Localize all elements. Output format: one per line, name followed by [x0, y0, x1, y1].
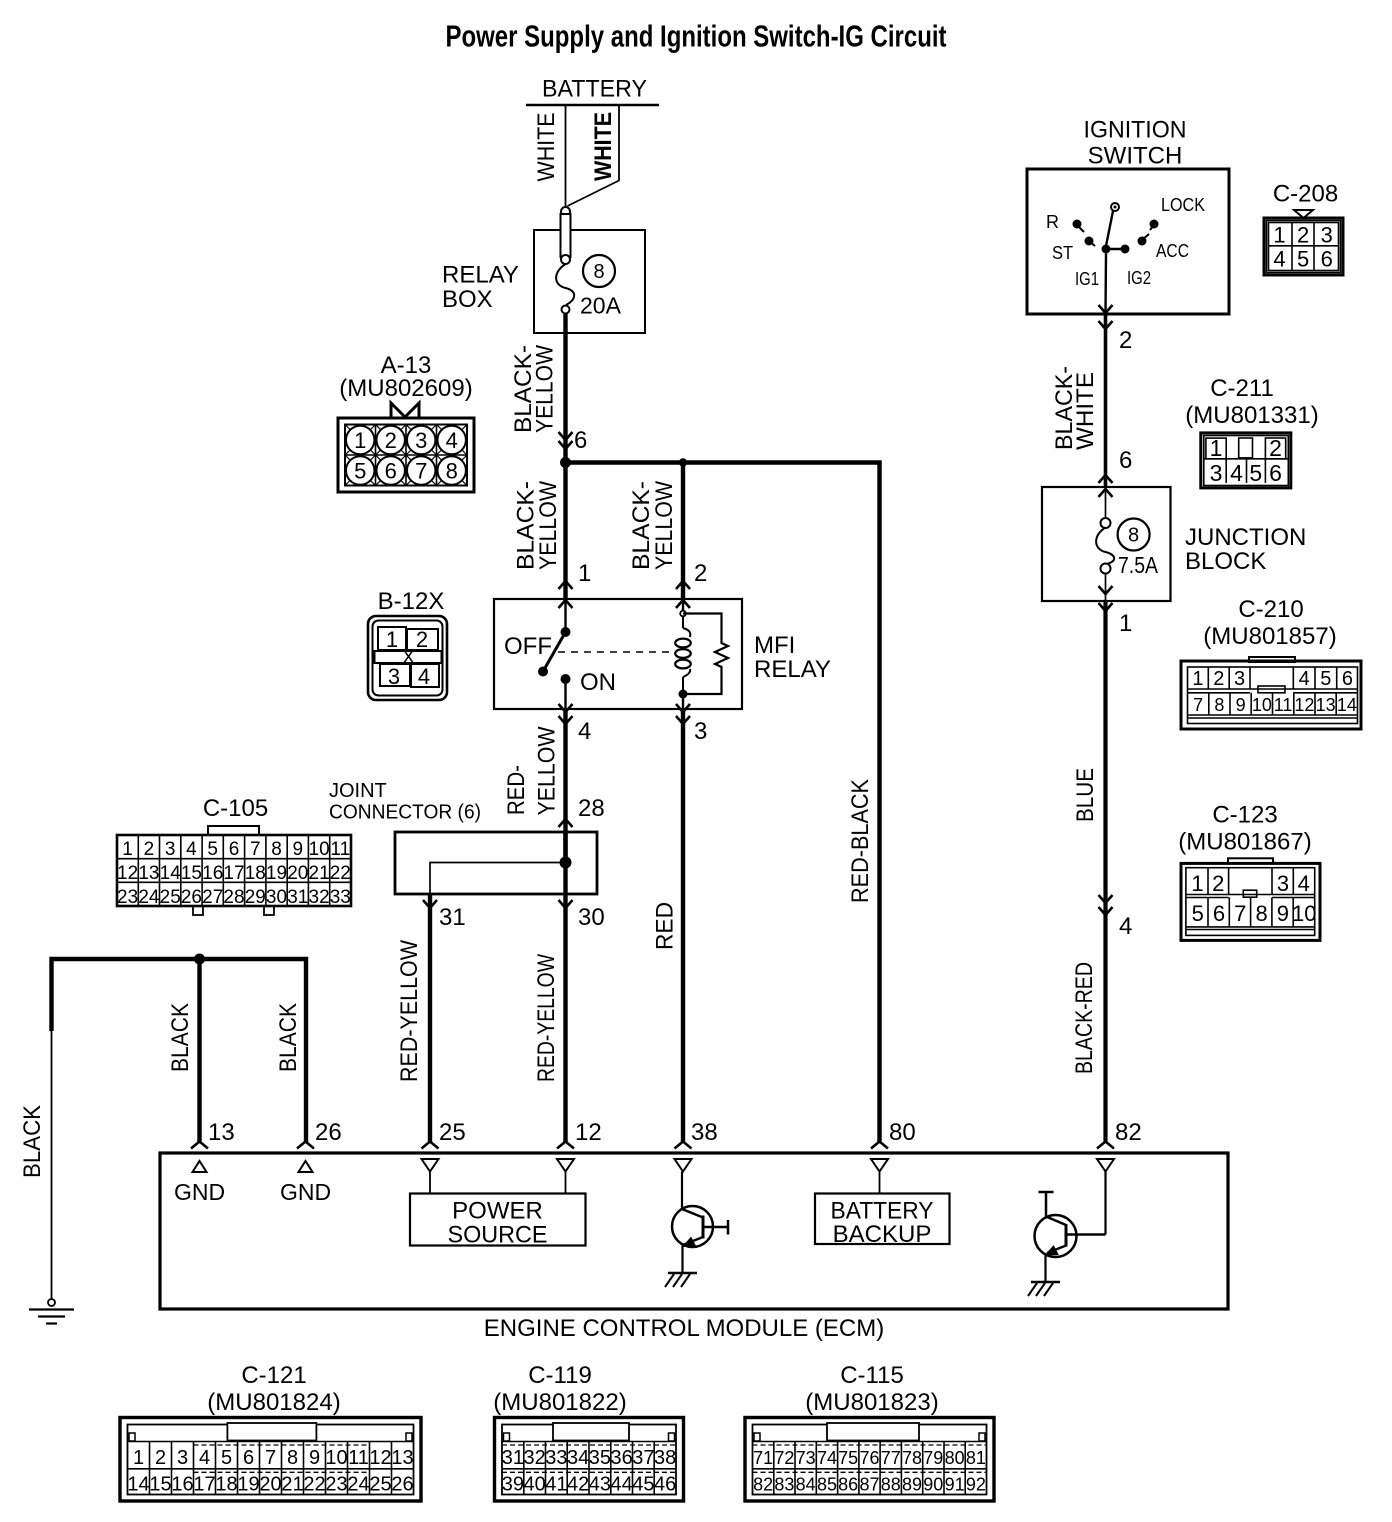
ECM power source block	[429, 1172, 431, 1194]
fuse number circle 8	[583, 255, 615, 287]
svg-text:RELAY: RELAY	[754, 656, 831, 683]
joint connector internal link	[430, 863, 566, 895]
ignition switch contact ACC inner	[1138, 237, 1147, 246]
svg-text:26: 26	[391, 1474, 413, 1496]
wire ignition switch output inside box	[1104, 254, 1107, 315]
svg-text:(MU801857): (MU801857)	[1203, 623, 1336, 650]
svg-text:4: 4	[578, 718, 591, 745]
wire RED (MFI pin 3 to ECM 38)	[681, 709, 685, 1143]
svg-text:10: 10	[325, 1447, 347, 1469]
svg-text:17: 17	[223, 863, 244, 884]
node coil bottom junction	[679, 690, 688, 699]
svg-text:(MU801867): (MU801867)	[1178, 828, 1311, 855]
svg-text:13: 13	[208, 1119, 235, 1146]
svg-text:25: 25	[160, 887, 181, 908]
svg-text:20A: 20A	[580, 293, 622, 319]
svg-text:18: 18	[215, 1474, 237, 1496]
svg-text:40: 40	[523, 1474, 545, 1496]
wire BLUE (junction block to C-123)	[1103, 601, 1107, 1143]
svg-text:IG1: IG1	[1075, 269, 1099, 289]
svg-text:19: 19	[266, 863, 287, 884]
svg-text:1: 1	[1210, 435, 1223, 461]
svg-text:4: 4	[446, 428, 458, 453]
MFI relay coil shunt resistor	[683, 614, 728, 695]
svg-text:21: 21	[309, 863, 330, 884]
svg-text:11: 11	[348, 1447, 369, 1469]
svg-text:RED-BLACK: RED-BLACK	[847, 779, 874, 903]
svg-text:1: 1	[1192, 668, 1203, 690]
svg-text:SWITCH: SWITCH	[1088, 143, 1183, 170]
svg-text:28: 28	[578, 795, 605, 822]
arrow chevrons into node 6	[559, 432, 573, 440]
svg-text:38: 38	[691, 1119, 718, 1146]
svg-text:31: 31	[502, 1447, 524, 1469]
svg-text:3: 3	[177, 1447, 188, 1469]
ignition switch contact link IG1-IG2	[1106, 248, 1125, 250]
ignition switch pivot	[1111, 203, 1119, 211]
svg-text:24: 24	[347, 1474, 369, 1496]
svg-text:71: 71	[753, 1448, 773, 1468]
svg-text:C-208: C-208	[1273, 181, 1338, 208]
svg-text:RED: RED	[652, 902, 679, 950]
svg-text:7.5A: 7.5A	[1118, 552, 1159, 578]
svg-text:92: 92	[966, 1475, 986, 1495]
ignition switch contact R	[1073, 220, 1082, 229]
svg-text:82: 82	[1115, 1119, 1142, 1146]
svg-text:SOURCE: SOURCE	[448, 1221, 548, 1248]
svg-text:6: 6	[1213, 901, 1225, 926]
svg-text:26: 26	[181, 887, 202, 908]
svg-text:2: 2	[1269, 435, 1282, 461]
wire RED-YELLOW (joint 31 to ECM 25)	[428, 894, 432, 1143]
svg-text:8: 8	[1128, 525, 1139, 547]
svg-text:11: 11	[1274, 695, 1293, 715]
svg-text:22: 22	[330, 863, 351, 884]
wire RED-YELLOW through joint connector	[563, 832, 567, 894]
svg-text:GND: GND	[280, 1179, 331, 1205]
wire BLACK-YELLOW (node to MFI pin 2)	[681, 463, 685, 600]
svg-text:87: 87	[859, 1475, 879, 1495]
arrow chevron into ECM pin 13	[191, 1142, 208, 1149]
svg-text:1: 1	[354, 428, 366, 453]
svg-text:4: 4	[1119, 913, 1132, 940]
svg-text:6: 6	[574, 427, 587, 454]
connector C-105 bottom tabs	[193, 906, 203, 915]
svg-text:6: 6	[385, 459, 397, 484]
connector C-123 body	[1228, 858, 1273, 863]
svg-text:20: 20	[259, 1474, 281, 1496]
fuse number circle 8 (junction block)	[1118, 519, 1150, 551]
svg-text:C-211: C-211	[1210, 375, 1274, 402]
svg-text:6: 6	[1119, 447, 1132, 474]
wire BLACK ground bus	[52, 959, 307, 1143]
svg-text:WHITE: WHITE	[533, 113, 560, 182]
MFI relay switch contact ON	[561, 674, 571, 684]
chassis ground (Q2)	[1031, 1281, 1060, 1284]
arrow chevrons into MFI pin 1	[559, 581, 573, 589]
svg-text:C-121: C-121	[241, 1362, 306, 1389]
svg-text:(MU801822): (MU801822)	[493, 1389, 626, 1416]
svg-text:33: 33	[330, 887, 351, 908]
junction block box	[1042, 487, 1171, 601]
svg-text:9: 9	[309, 1447, 320, 1469]
svg-text:80: 80	[945, 1448, 965, 1468]
svg-text:BLACK-RED: BLACK-RED	[1071, 962, 1098, 1074]
svg-text:7: 7	[415, 459, 427, 484]
svg-text:84: 84	[796, 1475, 816, 1495]
svg-text:BATTERY: BATTERY	[542, 76, 647, 103]
ECM pin 82 input triangle	[1097, 1159, 1114, 1172]
svg-text:73: 73	[796, 1448, 816, 1468]
svg-text:YELLOW: YELLOW	[651, 481, 678, 570]
svg-text:1: 1	[1119, 610, 1132, 637]
svg-text:22: 22	[303, 1474, 325, 1496]
svg-text:30: 30	[266, 887, 287, 908]
arrow chevron into joint connector pin 28	[559, 819, 573, 827]
svg-text:12: 12	[575, 1119, 602, 1146]
ignition switch contact ST	[1085, 237, 1094, 246]
svg-text:2: 2	[1297, 223, 1309, 248]
svg-text:2: 2	[416, 627, 428, 652]
arrow chevron into ECM pin 80	[871, 1142, 888, 1149]
ECM pin 80 input triangle	[871, 1159, 888, 1172]
node junction dot at 6	[560, 457, 571, 468]
svg-text:8: 8	[1255, 901, 1267, 926]
svg-text:BLOCK: BLOCK	[1185, 548, 1266, 575]
fuse element F8 20A in relay box	[556, 264, 574, 305]
svg-text:YELLOW: YELLOW	[532, 345, 559, 433]
svg-text:1: 1	[386, 627, 398, 652]
svg-text:4: 4	[1230, 460, 1243, 486]
svg-text:76: 76	[859, 1448, 879, 1468]
svg-text:2: 2	[155, 1447, 166, 1469]
svg-text:(MU801331): (MU801331)	[1185, 402, 1318, 429]
svg-text:5: 5	[1249, 460, 1262, 486]
svg-text:90: 90	[923, 1475, 943, 1495]
fuse element F8 7.5A in junction block	[1105, 487, 1107, 519]
node joint connector junction dot	[560, 857, 572, 869]
svg-text:31: 31	[439, 904, 466, 931]
svg-text:WHITE: WHITE	[590, 112, 617, 181]
ECM GND terminal 26	[299, 1161, 313, 1172]
svg-text:24: 24	[138, 887, 160, 908]
svg-text:8: 8	[287, 1447, 298, 1469]
svg-text:75: 75	[838, 1448, 858, 1468]
svg-text:5: 5	[354, 459, 366, 484]
svg-text:32: 32	[309, 887, 330, 908]
svg-text:43: 43	[589, 1474, 611, 1496]
svg-text:38: 38	[654, 1447, 676, 1469]
svg-text:YELLOW: YELLOW	[534, 726, 561, 815]
svg-text:33: 33	[545, 1447, 567, 1469]
svg-text:C-123: C-123	[1212, 802, 1277, 829]
ignition switch box	[1027, 169, 1229, 314]
svg-text:16: 16	[171, 1474, 193, 1496]
svg-text:5: 5	[1297, 247, 1309, 272]
svg-text:20: 20	[287, 863, 308, 884]
svg-text:10: 10	[1292, 901, 1316, 926]
svg-text:15: 15	[149, 1474, 171, 1496]
arrow chevrons out of junction block pin 1	[1099, 586, 1113, 594]
ground symbol (earth)	[48, 1299, 55, 1306]
svg-text:21: 21	[281, 1474, 303, 1496]
transistor Q2 (pin 82 driver)	[1104, 1172, 1106, 1235]
arrow chevrons out of MFI pin 4	[559, 704, 573, 712]
svg-text:6: 6	[1269, 460, 1282, 486]
svg-text:3: 3	[1321, 223, 1333, 248]
MFI relay actuation dashed link	[558, 651, 672, 653]
svg-text:81: 81	[966, 1448, 986, 1468]
svg-text:36: 36	[610, 1447, 632, 1469]
svg-text:37: 37	[632, 1447, 654, 1469]
wire BLACK-WHITE (ignition to junction block)	[1104, 314, 1108, 487]
arrow chevrons at C-123 pin 4	[1099, 895, 1113, 903]
MFI relay switch lever	[543, 632, 566, 672]
svg-text:RED-YELLOW: RED-YELLOW	[396, 940, 423, 1082]
svg-text:2: 2	[694, 560, 707, 587]
svg-text:1: 1	[133, 1447, 144, 1469]
svg-text:2: 2	[1213, 668, 1224, 690]
svg-text:6: 6	[1321, 247, 1333, 272]
svg-text:8: 8	[446, 459, 458, 484]
svg-text:BLACK: BLACK	[167, 1003, 194, 1072]
svg-text:CONNECTOR (6): CONNECTOR (6)	[329, 802, 481, 824]
wire BLACK-YELLOW (relay box to node 6)	[563, 314, 567, 463]
arrow chevrons into MFI pin 2	[676, 581, 690, 589]
svg-text:R: R	[1046, 212, 1059, 232]
svg-text:3: 3	[415, 428, 427, 453]
svg-text:7: 7	[1193, 695, 1203, 715]
svg-text:BLUE: BLUE	[1072, 768, 1099, 822]
svg-text:5: 5	[207, 839, 218, 860]
ignition switch contact ACC outer (LOCK side)	[1150, 220, 1159, 229]
wire RED-BLACK (bus to ECM 80)	[877, 463, 881, 1144]
svg-text:BACKUP: BACKUP	[833, 1221, 932, 1248]
svg-text:42: 42	[567, 1474, 589, 1496]
svg-text:46: 46	[654, 1474, 676, 1496]
svg-text:OFF: OFF	[504, 633, 552, 660]
svg-text:7: 7	[265, 1447, 276, 1469]
svg-text:(MU802609): (MU802609)	[339, 375, 472, 402]
wire BLACK to chassis ground (thin)	[51, 1031, 53, 1299]
svg-text:(MU801824): (MU801824)	[207, 1389, 340, 1416]
chassis ground (Q1)	[668, 1272, 697, 1275]
svg-text:14: 14	[127, 1474, 149, 1496]
arrow chevron into ECM pin 25	[422, 1142, 439, 1149]
svg-text:IG2: IG2	[1127, 268, 1151, 288]
svg-text:17: 17	[193, 1474, 215, 1496]
svg-text:80: 80	[889, 1119, 916, 1146]
svg-text:12: 12	[369, 1447, 391, 1469]
svg-text:ON: ON	[580, 669, 616, 696]
svg-text:1: 1	[1191, 871, 1203, 896]
svg-text:82: 82	[753, 1475, 773, 1495]
svg-text:15: 15	[181, 863, 202, 884]
svg-text:83: 83	[774, 1475, 794, 1495]
connector C-119 body	[495, 1418, 684, 1502]
svg-text:9: 9	[293, 839, 304, 860]
ECM pin 25 input triangle	[422, 1159, 439, 1172]
svg-text:8: 8	[593, 261, 604, 283]
arrow chevron into ECM pin 82	[1097, 1142, 1114, 1149]
svg-text:4: 4	[186, 839, 197, 860]
relay MFI box	[494, 599, 742, 709]
wire bus BLACK-YELLOW horizontal	[563, 460, 881, 465]
connector C-211 body	[1201, 433, 1291, 488]
wire RED-YELLOW (MFI pin 4 to joint connector pin 28)	[563, 709, 567, 863]
svg-text:23: 23	[117, 887, 138, 908]
wire BLACK-YELLOW (node to MFI pin 1)	[563, 463, 567, 600]
svg-text:6: 6	[1342, 668, 1353, 690]
svg-text:4: 4	[1299, 668, 1310, 690]
connector C-208 index triangle	[1294, 210, 1313, 218]
svg-text:30: 30	[578, 904, 605, 931]
svg-text:3: 3	[1277, 871, 1289, 896]
arrow chevrons out of ignition switch pin 2	[1099, 305, 1113, 313]
svg-text:88: 88	[881, 1475, 901, 1495]
svg-text:11: 11	[330, 839, 350, 860]
svg-text:JUNCTION: JUNCTION	[1185, 524, 1306, 551]
connector C-121 body	[120, 1418, 421, 1502]
ECM box (engine control module)	[160, 1153, 1228, 1309]
svg-text:78: 78	[902, 1448, 922, 1468]
svg-text:25: 25	[439, 1119, 466, 1146]
svg-text:BLACK: BLACK	[19, 1105, 46, 1178]
svg-text:ST: ST	[1052, 243, 1073, 263]
transistor Q1 (pin 38 driver)	[681, 1172, 683, 1210]
svg-text:89: 89	[902, 1475, 922, 1495]
MFI relay switch contact OFF	[564, 599, 566, 632]
ECM pin 12 input triangle	[557, 1159, 574, 1172]
svg-text:7: 7	[250, 839, 261, 860]
svg-text:5: 5	[221, 1447, 232, 1469]
wire MFI pin 4 (ON contact) inside relay	[564, 679, 566, 709]
ECM battery backup block	[879, 1172, 881, 1194]
wire battery lead 2 WHITE	[568, 105, 620, 206]
svg-text:ENGINE CONTROL MODULE (ECM): ENGINE CONTROL MODULE (ECM)	[484, 1315, 884, 1342]
svg-text:RED-YELLOW: RED-YELLOW	[533, 954, 560, 1082]
svg-text:4: 4	[1273, 247, 1285, 272]
connector C-105 body	[117, 835, 351, 906]
svg-text:C-210: C-210	[1238, 596, 1303, 623]
svg-text:34: 34	[567, 1447, 589, 1469]
svg-text:C-119: C-119	[528, 1362, 592, 1389]
svg-text:6: 6	[243, 1447, 254, 1469]
arrow chevrons into junction block pin 6	[1099, 475, 1113, 483]
svg-text:13: 13	[391, 1447, 413, 1469]
fusible link (battery to fuse)	[561, 207, 570, 216]
connector C-115 body	[745, 1418, 994, 1502]
svg-text:8: 8	[271, 839, 282, 860]
wire battery lead 1 WHITE	[565, 105, 567, 207]
svg-text:3: 3	[694, 718, 707, 745]
battery bus bar	[526, 104, 659, 107]
svg-text:3: 3	[165, 839, 176, 860]
svg-text:35: 35	[589, 1447, 611, 1469]
connector C-208 body	[1264, 218, 1343, 275]
svg-text:ACC: ACC	[1156, 241, 1189, 261]
connector C-210 body	[1249, 657, 1295, 662]
svg-text:2: 2	[144, 839, 155, 860]
svg-text:12: 12	[1294, 695, 1314, 715]
svg-text:C-105: C-105	[203, 795, 268, 822]
svg-text:2: 2	[1212, 871, 1224, 896]
ignition switch contact IG2	[1121, 245, 1130, 254]
wire RED-YELLOW (joint 30 to ECM 12)	[563, 894, 567, 1143]
svg-text:1: 1	[122, 839, 133, 860]
arrow chevron into ECM pin 38	[675, 1142, 692, 1149]
svg-text:10: 10	[1252, 695, 1272, 715]
svg-text:4: 4	[1298, 871, 1310, 896]
svg-text:LOCK: LOCK	[1161, 195, 1205, 215]
arrow chevron into ECM pin 12	[557, 1142, 574, 1149]
connector B-12X body	[368, 616, 447, 700]
ECM pin 38 input triangle	[675, 1159, 692, 1172]
svg-text:44: 44	[610, 1474, 632, 1496]
svg-text:26: 26	[315, 1119, 342, 1146]
svg-text:WHITE: WHITE	[1072, 372, 1099, 450]
svg-text:10: 10	[309, 839, 330, 860]
svg-text:3: 3	[1210, 460, 1223, 486]
svg-text:1: 1	[578, 560, 591, 587]
svg-text:9: 9	[1236, 695, 1246, 715]
svg-text:JOINT: JOINT	[329, 780, 387, 802]
svg-text:8: 8	[1214, 695, 1224, 715]
svg-text:5: 5	[1320, 668, 1331, 690]
svg-text:91: 91	[945, 1475, 965, 1495]
ignition switch contact IG1 (center)	[1102, 245, 1111, 254]
connector C-105 top tab	[208, 826, 259, 835]
svg-text:19: 19	[237, 1474, 259, 1496]
svg-text:45: 45	[632, 1474, 654, 1496]
svg-text:6: 6	[229, 839, 240, 860]
svg-text:32: 32	[523, 1447, 545, 1469]
joint connector box	[395, 832, 597, 894]
svg-text:28: 28	[223, 887, 244, 908]
MFI relay coil	[682, 599, 684, 611]
svg-text:14: 14	[160, 863, 182, 884]
svg-text:79: 79	[923, 1448, 943, 1468]
relay box outline	[534, 230, 645, 333]
svg-text:GND: GND	[174, 1179, 225, 1205]
svg-text:YELLOW: YELLOW	[535, 481, 562, 570]
svg-text:29: 29	[245, 887, 266, 908]
svg-text:IGNITION: IGNITION	[1084, 116, 1187, 143]
transistor Q1 emitter to chassis ground	[681, 1245, 683, 1273]
svg-text:16: 16	[202, 863, 223, 884]
svg-text:3: 3	[1234, 668, 1245, 690]
arrow chevron into ECM pin 26	[297, 1142, 314, 1149]
svg-text:39: 39	[502, 1474, 524, 1496]
svg-text:23: 23	[325, 1474, 347, 1496]
svg-text:25: 25	[369, 1474, 391, 1496]
wire MFI pin 3 inside relay	[682, 694, 684, 709]
svg-text:RED-: RED-	[503, 765, 530, 815]
svg-text:86: 86	[838, 1475, 858, 1495]
svg-text:72: 72	[774, 1448, 794, 1468]
svg-text:2: 2	[1119, 327, 1132, 354]
svg-text:5: 5	[1192, 901, 1204, 926]
svg-text:27: 27	[202, 887, 223, 908]
svg-text:4: 4	[199, 1447, 210, 1469]
svg-text:BLACK: BLACK	[275, 1003, 302, 1072]
svg-text:13: 13	[1316, 695, 1336, 715]
svg-text:18: 18	[245, 863, 266, 884]
arrow chevron out of joint pin 30	[559, 900, 573, 908]
svg-text:85: 85	[817, 1475, 837, 1495]
svg-text:31: 31	[287, 887, 308, 908]
svg-text:BOX: BOX	[442, 286, 493, 313]
